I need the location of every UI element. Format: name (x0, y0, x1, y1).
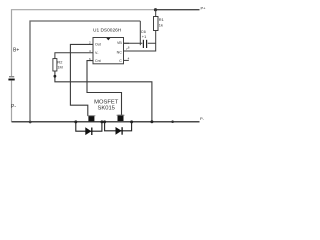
svg-text:C: C (119, 59, 122, 63)
node bus dot right terminal side (171, 120, 174, 123)
svg-text:1M: 1M (57, 65, 62, 70)
U1 pin 5 stub right row3 (NC) (124, 57, 130, 61)
svg-text:R1: R1 (159, 17, 164, 22)
resistor R2 label (57, 59, 62, 69)
node bus dot right loop b (130, 120, 133, 123)
U1 pin label Cnt (95, 59, 101, 63)
U1 pin label VB (117, 41, 122, 45)
wire R2 bottom to right drain drop (55, 71, 152, 122)
U1 pin label C (119, 59, 122, 63)
U1 pin 8 stub right row1 (124, 43, 130, 49)
svg-text:Cnt: Cnt (95, 59, 101, 63)
diode D2 (116, 127, 123, 135)
node bus dot left loop b (100, 120, 103, 123)
svg-text:P-: P- (11, 104, 16, 110)
U1 pin 2 stub left row1 (89, 41, 91, 45)
U1 pin 6 stub left row3 (89, 57, 91, 61)
wire U1 pin8 to C6 (124, 42, 156, 44)
wire R1 bottom to pin7 return (124, 31, 156, 52)
svg-text:8: 8 (128, 45, 130, 49)
node B+ label (13, 48, 19, 54)
U1 pin label V- (95, 51, 99, 55)
wire U1 pin4 to R2 top (55, 53, 93, 59)
U1 pin 4 stub left row2 (89, 49, 91, 53)
wire inner rail drop to cap (139, 21, 141, 45)
svg-text:U1 DS0026H: U1 DS0026H (93, 28, 122, 34)
svg-text:VB: VB (117, 41, 122, 45)
U1 notch mark (106, 38, 110, 41)
wire diode D2 loop (105, 122, 132, 131)
diode D1 (85, 127, 92, 135)
svg-text:+1: +1 (142, 34, 146, 39)
IC U1 driver body (93, 38, 124, 64)
node P- label (11, 104, 16, 110)
node bus dot right loop a (103, 120, 106, 123)
node top bus junction (154, 8, 157, 11)
svg-text:P+: P+ (201, 5, 207, 10)
U1 pin 7 stub right row2 (124, 47, 130, 51)
svg-text:NC: NC (117, 50, 123, 54)
node R2 bottom junction dot (54, 75, 57, 78)
capacitor C6 plates (143, 40, 146, 48)
resistor R1 vertical from top bus (155, 10, 157, 17)
wire U1 pin2 to Q1 gate (70, 44, 93, 116)
wire top bus left (B+ rail) (12, 10, 156, 122)
resistor R1 labels (159, 17, 164, 28)
wire bottom bus (12, 121, 200, 123)
U1 pin label Out (95, 43, 101, 47)
U1 pin label NC (117, 50, 123, 54)
transistor Q1 MOSFET body (87, 115, 95, 121)
resistor R1 body (154, 17, 159, 31)
svg-text:SK015: SK015 (97, 106, 114, 112)
transistor Q2 MOSFET body (117, 115, 125, 121)
node terminal label top right (201, 5, 207, 10)
node terminal label bottom right (200, 116, 205, 121)
svg-text:4: 4 (128, 57, 130, 61)
svg-text:1k: 1k (159, 23, 163, 28)
wire inner rail left (30, 21, 140, 122)
node bus dot left loop a (74, 120, 77, 123)
svg-text:P-: P- (200, 116, 205, 121)
battery B plates (8, 77, 14, 80)
node inner rail bottom junction (29, 121, 32, 124)
wire top bus right to terminal (155, 9, 200, 11)
U1 reference label (93, 28, 122, 34)
capacitor C6 labels (141, 29, 146, 39)
svg-text:MOSFET: MOSFET (94, 100, 119, 106)
wire diode D1 loop (76, 122, 102, 131)
svg-text:Out: Out (95, 43, 101, 47)
wire U1 pin6 to Q2 gate (87, 61, 122, 115)
node drain drop bus junction (150, 120, 153, 123)
MOSFET type label (94, 100, 119, 112)
resistor R2 body (53, 59, 57, 71)
svg-text:B+: B+ (13, 48, 19, 54)
